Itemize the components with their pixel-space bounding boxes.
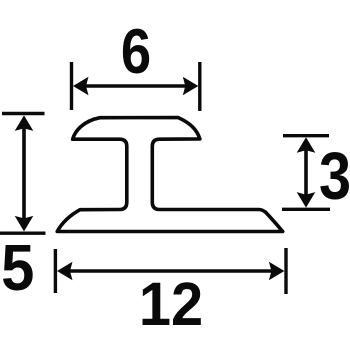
dimension 12: left extension tick <box>54 249 57 293</box>
svg-text:5: 5 <box>1 232 34 305</box>
dimension 3: down arrowhead <box>297 192 316 208</box>
dimension 6: right extension tick <box>198 62 201 111</box>
dimension 6: right arrowhead <box>183 77 199 96</box>
dimension 5: bottom extension tick <box>0 231 46 234</box>
dimension 3: up arrowhead <box>297 137 316 153</box>
dimension 3: arrow line <box>304 148 308 197</box>
dimension 5: down arrowhead <box>15 216 34 232</box>
dimension 6: left extension tick <box>70 62 73 110</box>
dimension 6: arrow line <box>84 84 187 88</box>
dimension 6: left arrowhead <box>73 77 89 96</box>
svg-text:6: 6 <box>121 17 151 87</box>
dimension 12: arrow line <box>68 269 273 273</box>
svg-text:12: 12 <box>139 269 203 338</box>
dimension 3: top extension tick <box>283 134 329 137</box>
dimension 5: arrow line <box>22 127 26 220</box>
profile outline (H-divider extrusion cross-section) <box>57 118 283 232</box>
dimension 5: top extension tick <box>2 112 45 115</box>
dimension 12: left arrowhead <box>57 262 73 281</box>
dimension 3: bottom extension tick <box>282 208 330 211</box>
dimension 12: right extension tick <box>284 248 287 294</box>
svg-text:3: 3 <box>319 139 350 214</box>
dimension 12: right arrowhead <box>269 262 285 281</box>
dimension 5: up arrowhead <box>15 115 34 130</box>
